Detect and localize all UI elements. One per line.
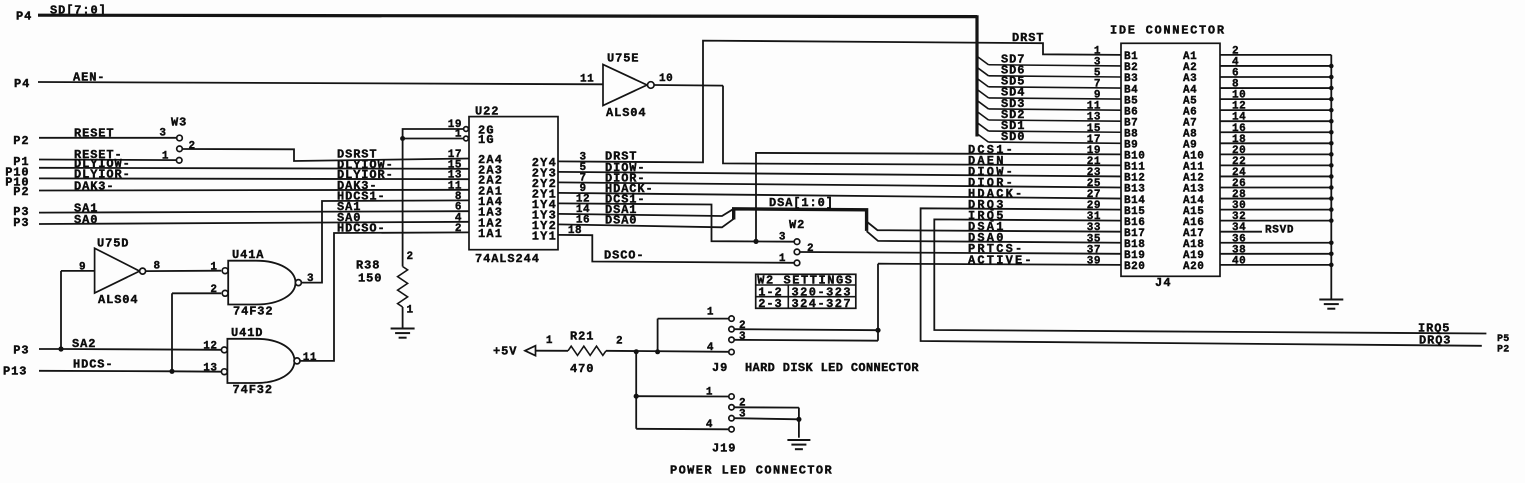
svg-text:1: 1 [162,151,169,163]
svg-text:1A1: 1A1 [478,227,503,241]
svg-text:HDCS-: HDCS- [73,357,114,371]
svg-text:DRST: DRST [1012,31,1044,45]
svg-text:3: 3 [779,232,786,244]
svg-text:4: 4 [707,342,714,354]
svg-text:1: 1 [706,387,713,399]
svg-text:ALS04: ALS04 [606,106,647,120]
svg-text:P5: P5 [1497,334,1510,345]
svg-text:74ALS244: 74ALS244 [475,252,540,266]
svg-text:U75D: U75D [97,237,129,251]
svg-text:11: 11 [580,74,594,86]
svg-text:1Y1: 1Y1 [532,229,557,243]
svg-text:324-327: 324-327 [792,297,853,311]
svg-text:P2: P2 [13,134,29,148]
svg-text:R21: R21 [570,330,594,344]
svg-text:U41D: U41D [231,326,263,340]
svg-text:HARD DISK LED CONNECTOR: HARD DISK LED CONNECTOR [745,361,919,375]
svg-text:P3: P3 [13,216,29,230]
svg-text:1: 1 [707,307,714,319]
svg-text:IDE CONNECTOR: IDE CONNECTOR [1110,24,1226,38]
svg-text:U22: U22 [475,105,499,119]
svg-text:4: 4 [706,419,713,431]
svg-text:W3: W3 [171,116,187,130]
svg-text:P3: P3 [13,344,29,358]
svg-text:2: 2 [210,284,217,296]
svg-text:W2: W2 [789,218,805,232]
svg-text:SA0: SA0 [74,213,98,227]
svg-text:1: 1 [546,335,553,347]
svg-text:P2: P2 [1497,345,1510,356]
svg-text:B20: B20 [1124,261,1145,273]
svg-text:13: 13 [203,363,217,375]
svg-text:1: 1 [407,305,414,317]
svg-text:U41A: U41A [232,248,264,262]
svg-text:3: 3 [159,128,166,140]
svg-text:R38: R38 [356,259,380,273]
svg-text:3: 3 [739,408,746,420]
svg-text:J19: J19 [712,442,736,456]
svg-text:1: 1 [210,262,217,274]
svg-text:12: 12 [203,341,217,353]
svg-text:11: 11 [303,352,317,364]
svg-text:A20: A20 [1183,261,1204,273]
svg-text:POWER LED CONNECTOR: POWER LED CONNECTOR [670,464,833,478]
svg-text:150: 150 [358,272,382,286]
svg-text:P4: P4 [16,10,32,24]
svg-text:J9: J9 [712,361,728,375]
svg-text:74F32: 74F32 [233,305,274,319]
svg-text:ALS04: ALS04 [98,293,139,307]
svg-text:DAK3-: DAK3- [74,180,115,194]
svg-text:2: 2 [807,243,814,255]
svg-text:P4: P4 [14,77,30,91]
svg-text:3: 3 [739,331,746,343]
svg-text:DRQ3: DRQ3 [1419,334,1451,348]
svg-text:2-3: 2-3 [758,297,782,311]
svg-text:10: 10 [659,73,673,85]
svg-text:74F32: 74F32 [233,383,274,397]
svg-text:J4: J4 [1155,276,1172,290]
svg-text:DSA[1:0]: DSA[1:0] [769,196,834,210]
svg-text:2: 2 [407,251,414,263]
svg-text:470: 470 [570,362,594,376]
svg-text:DSCO-: DSCO- [604,249,645,263]
svg-text:1G: 1G [478,133,495,147]
svg-text:P13: P13 [3,365,27,379]
svg-text:2: 2 [189,141,196,153]
svg-text:P2: P2 [13,185,29,199]
svg-text:U75E: U75E [607,52,639,66]
svg-text:2: 2 [616,336,623,348]
svg-text:RSVD: RSVD [1265,225,1294,237]
svg-text:+5V: +5V [493,345,517,359]
